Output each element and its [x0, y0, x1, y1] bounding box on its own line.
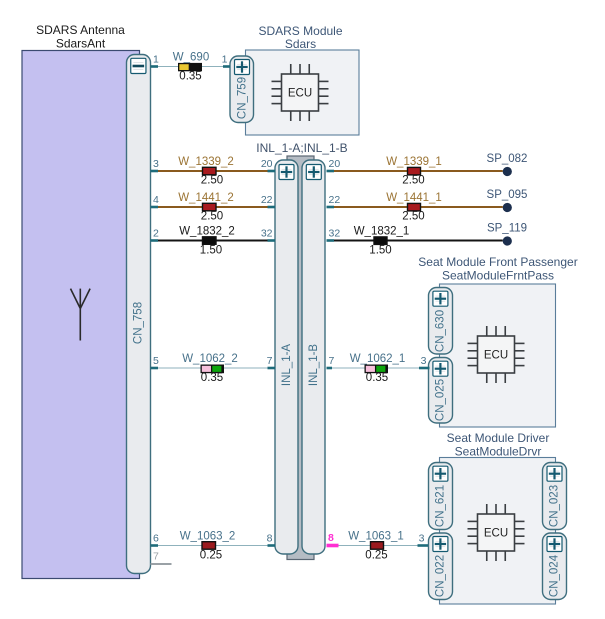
svg-text:W_1063_1: W_1063_1 — [348, 530, 404, 542]
svg-text:Seat Module Driver: Seat Module Driver — [447, 431, 550, 445]
svg-text:0.35: 0.35 — [366, 372, 388, 384]
svg-text:W_690: W_690 — [173, 52, 209, 64]
svg-text:W_1339_1: W_1339_1 — [386, 156, 442, 168]
svg-text:CN_621: CN_621 — [435, 485, 447, 527]
svg-text:W_1832_2: W_1832_2 — [179, 225, 235, 237]
svg-text:7: 7 — [329, 355, 335, 367]
svg-text:3: 3 — [421, 355, 427, 367]
svg-text:0.25: 0.25 — [200, 549, 222, 561]
svg-text:8: 8 — [267, 533, 273, 545]
svg-text:W_1832_1: W_1832_1 — [354, 225, 410, 237]
svg-text:ECU: ECU — [484, 350, 508, 362]
svg-text:ECU: ECU — [484, 528, 508, 540]
svg-text:CN_023: CN_023 — [549, 485, 561, 527]
svg-text:SeatModuleDrvr: SeatModuleDrvr — [455, 445, 542, 459]
svg-text:W_1062_2: W_1062_2 — [182, 353, 238, 365]
svg-text:INL_1-A: INL_1-A — [281, 344, 293, 387]
svg-text:3: 3 — [419, 533, 425, 545]
svg-text:INL_1-B: INL_1-B — [308, 344, 320, 387]
svg-text:3: 3 — [153, 158, 159, 170]
svg-text:32: 32 — [261, 228, 273, 240]
svg-text:SDARS Module: SDARS Module — [258, 24, 342, 38]
svg-text:1.50: 1.50 — [200, 244, 222, 256]
svg-text:ECU: ECU — [288, 88, 312, 100]
svg-text:SP_119: SP_119 — [487, 223, 527, 235]
svg-text:6: 6 — [153, 533, 159, 545]
svg-text:CN_759: CN_759 — [236, 77, 248, 119]
svg-text:22: 22 — [329, 194, 341, 206]
svg-text:1: 1 — [222, 54, 228, 66]
svg-text:0.35: 0.35 — [179, 70, 201, 82]
svg-text:CN_025: CN_025 — [435, 379, 447, 421]
svg-text:SP_082: SP_082 — [487, 153, 528, 165]
svg-text:Sdars: Sdars — [285, 37, 316, 51]
svg-text:CN_022: CN_022 — [435, 555, 447, 597]
svg-text:20: 20 — [261, 158, 273, 170]
svg-text:2.50: 2.50 — [402, 210, 424, 222]
svg-text:8: 8 — [328, 532, 334, 544]
svg-text:2.50: 2.50 — [201, 210, 223, 222]
svg-text:1.50: 1.50 — [369, 244, 391, 256]
svg-text:W_1063_2: W_1063_2 — [180, 530, 236, 542]
svg-text:SDARS Antenna: SDARS Antenna — [36, 23, 125, 37]
svg-text:4: 4 — [153, 194, 159, 206]
svg-text:32: 32 — [329, 228, 341, 240]
svg-text:CN_758: CN_758 — [133, 302, 145, 344]
svg-text:SdarsAnt: SdarsAnt — [56, 37, 106, 51]
svg-text:7: 7 — [267, 355, 273, 367]
svg-text:0.25: 0.25 — [365, 549, 387, 561]
svg-text:20: 20 — [329, 158, 341, 170]
svg-text:2: 2 — [153, 228, 159, 240]
svg-text:Seat Module Front Passenger: Seat Module Front Passenger — [418, 255, 577, 269]
svg-text:2.50: 2.50 — [402, 174, 424, 186]
svg-text:22: 22 — [261, 194, 273, 206]
svg-text:W_1441_2: W_1441_2 — [178, 192, 234, 204]
svg-text:2.50: 2.50 — [201, 174, 223, 186]
svg-text:W_1339_2: W_1339_2 — [178, 156, 234, 168]
svg-text:5: 5 — [153, 355, 159, 367]
svg-text:CN_024: CN_024 — [549, 554, 561, 597]
svg-text:1: 1 — [153, 54, 159, 66]
svg-text:INL_1-A;INL_1-B: INL_1-A;INL_1-B — [256, 141, 347, 155]
svg-text:0.35: 0.35 — [201, 372, 223, 384]
svg-text:SP_095: SP_095 — [487, 189, 528, 201]
svg-text:W_1062_1: W_1062_1 — [350, 353, 406, 365]
svg-text:SeatModuleFrntPass: SeatModuleFrntPass — [442, 269, 554, 283]
svg-text:7: 7 — [153, 551, 159, 563]
svg-text:CN_630: CN_630 — [435, 310, 447, 352]
svg-text:W_1441_1: W_1441_1 — [386, 192, 442, 204]
